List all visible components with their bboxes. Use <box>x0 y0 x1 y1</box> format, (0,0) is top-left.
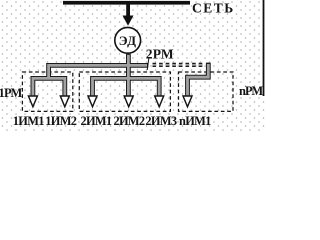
svg-text:2ИМ3: 2ИМ3 <box>145 114 176 128</box>
svg-text:1РМ: 1РМ <box>0 86 23 100</box>
svg-text:nИМ1: nИМ1 <box>179 114 211 128</box>
svg-text:СЕТЬ: СЕТЬ <box>192 0 235 15</box>
svg-text:ЭД: ЭД <box>119 33 137 48</box>
svg-text:1ИМ1: 1ИМ1 <box>13 114 44 128</box>
svg-text:1ИМ2: 1ИМ2 <box>45 114 76 128</box>
svg-text:2ИМ1: 2ИМ1 <box>81 114 112 128</box>
svg-text:nРМ: nРМ <box>239 84 263 98</box>
svg-text:2РМ: 2РМ <box>146 46 174 61</box>
svg-text:2ИМ2: 2ИМ2 <box>114 114 145 128</box>
